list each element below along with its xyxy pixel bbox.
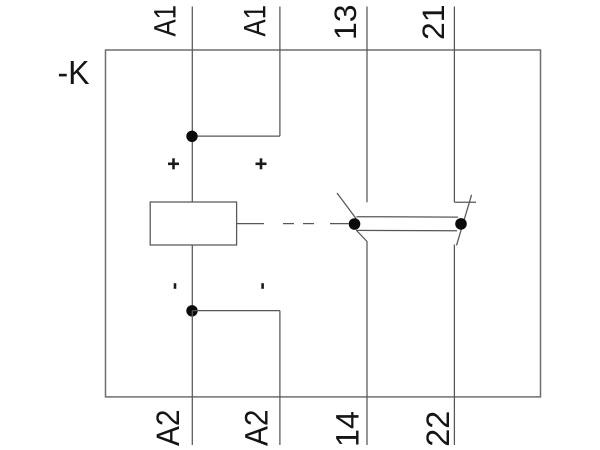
NC contact moving arm through dot — [457, 195, 472, 246]
terminal label 22 (bottom) — [426, 412, 449, 445]
wire: stub from coil right edge — [237, 223, 265, 225]
junction dot A2 — [186, 305, 197, 316]
wire: pin 14 down — [366, 241, 368, 445]
wire: pin A2-1 bottom segment — [191, 311, 193, 445]
NO contact moving arm (13) — [337, 193, 356, 219]
wire: pin A1-1 down to coil — [191, 7, 193, 203]
terminal label A2 (pin 2, bottom) — [245, 411, 268, 446]
terminal label 21 (top) — [422, 6, 444, 38]
mechanical linkage dash 2 — [303, 223, 314, 225]
wire: pin 21 down to contact — [453, 7, 455, 203]
minus sign (left, rotated) — [174, 283, 177, 289]
wire: pin 13 down to contact — [366, 7, 368, 203]
wire: pin 22 down — [453, 245, 455, 446]
terminal label A1 (pin 2, top) — [244, 6, 265, 36]
mechanical linkage dash 1 — [283, 223, 294, 225]
NO contact lower diagonal to pin 14 — [356, 230, 367, 241]
wire: A2 horizontal jog — [192, 310, 280, 312]
plus sign (left) — [168, 158, 179, 169]
terminal label 13 (top) — [334, 6, 356, 38]
junction dot A1 — [186, 131, 197, 142]
plus sign (right) — [256, 158, 267, 169]
wire: pin A2-2 bottom segment — [279, 311, 281, 445]
relay outline box — [106, 50, 541, 397]
terminal label 14 (bottom) — [336, 412, 358, 445]
contact dot 13/14 — [349, 218, 361, 230]
wire: coil bottom to A2 junction — [191, 245, 193, 311]
minus sign (right, rotated) — [261, 283, 264, 289]
terminal label A2 (pin 1, bottom) — [156, 411, 179, 446]
mechanical linkage dash 3 into contact — [330, 223, 349, 225]
device tag -K — [59, 61, 89, 84]
contact dot 21/22 — [455, 218, 467, 230]
NC contact foot bar (21) — [454, 201, 476, 203]
contact bridge lower line — [356, 229, 457, 231]
terminal label A1 (pin 1, top) — [154, 6, 175, 36]
wire: pin A1-2 top segment — [279, 7, 281, 137]
contact bridge upper line — [357, 216, 459, 218]
coil K — [150, 202, 236, 245]
wire: A1 horizontal jog — [192, 135, 280, 137]
